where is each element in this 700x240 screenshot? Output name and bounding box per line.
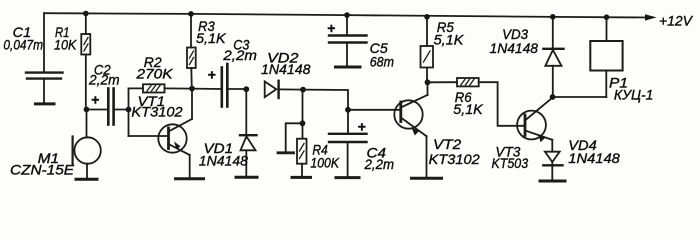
svg-text:2,2m: 2,2m xyxy=(364,156,395,172)
ground bar below VT2 xyxy=(412,177,442,180)
ground bar below C5 xyxy=(336,66,361,69)
svg-text:0,047m: 0,047m xyxy=(3,38,43,53)
wire to VT2 base xyxy=(348,109,400,111)
junction rail/R5 xyxy=(424,14,430,20)
label P1 value xyxy=(609,75,653,103)
junction rail/R3 xyxy=(188,11,194,17)
relay P1 xyxy=(553,17,623,97)
diode VD1 xyxy=(240,89,257,176)
junction C3/VD1/VD2 xyxy=(243,86,249,92)
svg-text:1N4148: 1N4148 xyxy=(199,153,248,169)
label R1 value xyxy=(54,24,77,52)
junction R5/R6/VT2 collector xyxy=(425,79,431,85)
power +12V arrow xyxy=(645,14,657,20)
resistor R2 xyxy=(129,84,193,92)
svg-text:1N4148: 1N4148 xyxy=(490,40,539,56)
resistor R1 xyxy=(81,14,90,110)
wire VD2 node to C4/VT2 xyxy=(303,90,348,110)
junction rail/R1 xyxy=(83,11,89,17)
svg-text:CZN-15E: CZN-15E xyxy=(10,162,75,177)
svg-text:1N4148: 1N4148 xyxy=(568,150,620,166)
svg-text:1N4148: 1N4148 xyxy=(261,61,311,77)
transistor VT3 xyxy=(517,98,553,143)
ground bar below R4 xyxy=(292,176,311,179)
ground bar below M1 xyxy=(76,178,97,181)
svg-text:270K: 270K xyxy=(135,66,173,82)
ground bar below C4 xyxy=(336,176,359,179)
junction VD2/R4/C4 node xyxy=(300,87,306,93)
resistor R5 xyxy=(421,17,434,83)
label VT3 value xyxy=(492,143,529,171)
svg-text:+: + xyxy=(327,20,335,36)
junction rail/C5 xyxy=(344,12,350,18)
ground bar below C1 xyxy=(36,102,55,105)
junction VD3/P1/VT3 collector xyxy=(550,94,556,100)
label M1 value xyxy=(10,150,75,178)
label VD4 value xyxy=(568,137,620,166)
svg-text:+: + xyxy=(358,119,366,135)
label C1 value xyxy=(3,24,43,53)
svg-text:10K: 10K xyxy=(54,36,77,52)
capacitor C3 xyxy=(192,64,246,107)
svg-text:KT3102: KT3102 xyxy=(131,104,183,120)
label C2 value xyxy=(88,61,120,87)
svg-text:100K: 100K xyxy=(310,154,339,170)
svg-text:KT503: KT503 xyxy=(492,155,529,171)
ground bar below VD1 xyxy=(236,176,257,179)
capacitor C5 xyxy=(327,15,367,65)
resistor R3 xyxy=(187,14,196,89)
svg-text:2,2m: 2,2m xyxy=(222,47,257,63)
svg-text:+12V: +12V xyxy=(659,12,694,28)
junction C4/VT2 base node xyxy=(345,107,351,113)
label C3 value xyxy=(222,36,257,63)
label R2 value xyxy=(135,54,173,82)
label R3 value xyxy=(196,18,226,46)
ground bar below VT1 xyxy=(176,177,204,180)
transistor VT1 xyxy=(158,89,192,178)
svg-text:68m: 68m xyxy=(370,53,395,69)
junction R1/C2/M1 node xyxy=(84,107,90,113)
diode VD2 xyxy=(265,81,303,98)
label R6 value xyxy=(453,89,483,117)
wire +12V top rail xyxy=(44,13,648,17)
diode VD4 xyxy=(543,140,562,180)
capacitor C4 xyxy=(329,110,367,177)
capacitor C1 xyxy=(26,13,63,102)
wire C2 node to base xyxy=(129,88,168,136)
junction C2/R2/VT1 base node xyxy=(126,107,132,113)
svg-text:+: + xyxy=(208,67,216,83)
label VD3 value xyxy=(490,26,539,56)
resistor R4 xyxy=(297,123,307,176)
svg-text:2,2m: 2,2m xyxy=(88,71,120,87)
svg-text:+: + xyxy=(91,92,99,108)
diode VD3 xyxy=(543,17,563,97)
junction R2/R3/C3/VT1 collector xyxy=(189,86,195,92)
microphone M1 xyxy=(73,110,101,179)
svg-text:КУЦ-1: КУЦ-1 xyxy=(614,87,654,103)
capacitor C2 xyxy=(87,89,129,125)
wire VD2 node down to R4 xyxy=(302,90,304,124)
svg-text:5,1K: 5,1K xyxy=(196,30,226,46)
ground bar below VD4 xyxy=(540,180,565,183)
label R4 value xyxy=(310,141,339,170)
svg-text:5,1K: 5,1K xyxy=(434,32,464,48)
label VD1 value xyxy=(199,140,248,168)
wire R4 node to ground bracket xyxy=(286,123,303,152)
junction rail/VD3 xyxy=(550,14,556,20)
junction rail/P1 xyxy=(604,14,610,20)
svg-text:KT3102: KT3102 xyxy=(429,151,480,167)
label C4 value xyxy=(364,144,395,172)
label R5 value xyxy=(434,19,464,48)
svg-text:VT2: VT2 xyxy=(433,136,461,152)
transistor VT2 xyxy=(394,82,427,177)
resistor R6 xyxy=(428,78,524,126)
label VT1 value xyxy=(131,93,183,120)
label VD2 value xyxy=(261,50,311,78)
junction R4 top node xyxy=(300,120,306,126)
label C5 value xyxy=(370,40,395,70)
svg-text:5,1K: 5,1K xyxy=(453,101,483,117)
label VT2 value xyxy=(429,136,480,167)
ground bar left of R4 xyxy=(278,151,294,154)
